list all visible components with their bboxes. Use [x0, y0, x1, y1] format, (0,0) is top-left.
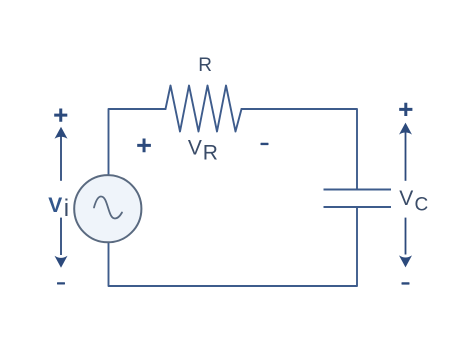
- svg-text:R: R: [198, 55, 212, 76]
- svg-text:V: V: [399, 187, 413, 210]
- svg-text:R: R: [203, 141, 218, 164]
- svg-text:C: C: [415, 194, 429, 215]
- svg-text:V: V: [188, 137, 202, 160]
- svg-text:i: i: [64, 195, 69, 222]
- svg-text:V: V: [48, 194, 62, 217]
